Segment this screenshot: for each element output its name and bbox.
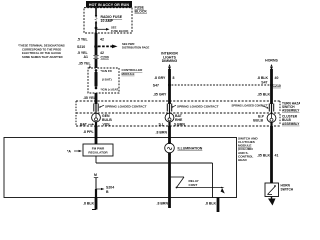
grounds stub M [94, 173, 98, 189]
svg-text:REGULATOR: REGULATOR [88, 150, 108, 154]
wire dimming to illumination lamp [168, 126, 171, 143]
svg-text:S47: S47 [261, 81, 267, 85]
svg-text:SOME NAMES THAT ADAPTED: SOME NAMES THAT ADAPTED [22, 55, 63, 59]
module top terminal [95, 69, 113, 73]
svg-text:8: 8 [173, 76, 175, 80]
wire below fuse block [95, 33, 98, 55]
svg-text:HORNS: HORNS [265, 59, 278, 63]
svg-text:CORRESPOND TO THE PROD: CORRESPOND TO THE PROD [22, 47, 61, 51]
svg-text:HEAD: HEAD [238, 158, 248, 162]
svg-text:.8 BLK: .8 BLK [257, 76, 269, 80]
svg-text:ASSEMBLY: ASSEMBLY [282, 122, 300, 126]
splice junction S47 mid [153, 84, 171, 88]
svg-text:.35 BLK: .35 BLK [257, 93, 271, 97]
spring contact right [269, 104, 273, 114]
svg-text:SWITCH: SWITCH [281, 187, 294, 191]
wire left column to box A [95, 126, 98, 144]
svg-text:ILLUMINATION: ILLUMINATION [178, 146, 203, 150]
svg-text:BLOCK: BLOCK [135, 9, 148, 13]
bulb left [92, 113, 113, 122]
svg-text:S210: S210 [77, 45, 85, 49]
svg-text:BAT: BAT [80, 123, 88, 127]
module label [122, 68, 144, 76]
svg-text:*A: *A [67, 149, 71, 153]
regulator input arrow [67, 149, 82, 153]
svg-text:42: 42 [100, 51, 104, 55]
relay branch from lamp wire [171, 177, 225, 194]
svg-text:.5 YEL: .5 YEL [77, 38, 88, 42]
ground wire right below bus [205, 198, 218, 213]
wire illumination lamp to bus [168, 153, 171, 197]
spring loaded contact label right [232, 103, 269, 108]
spring contact left [94, 104, 98, 114]
junction dot in fuse block [95, 27, 98, 30]
svg-text:.8 GRY: .8 GRY [154, 76, 166, 80]
svg-text:VIOL: VIOL [103, 123, 112, 127]
ground wire left below bus [83, 198, 96, 210]
svg-text:FUSE BLOCK: FUSE BLOCK [111, 29, 129, 33]
svg-text:CONT: CONT [189, 183, 198, 187]
svg-text:.35 BLK: .35 BLK [257, 154, 271, 158]
svg-text:41: 41 [275, 154, 279, 158]
svg-text:*IGN (+) BAT: *IGN (+) BAT [101, 88, 119, 92]
svg-text:MODULE: MODULE [122, 72, 135, 76]
cluster right labels group1 [282, 101, 306, 112]
svg-text:DISTRIBUTION PAGE: DISTRIBUTION PAGE [122, 45, 149, 49]
arrow see power distribution [98, 42, 149, 49]
svg-text:S.L: S.L [159, 123, 165, 127]
svg-text:(I BAT): (I BAT) [102, 77, 112, 81]
svg-text:S47: S47 [153, 84, 159, 88]
svg-text:.35 YEL: .35 YEL [83, 96, 96, 100]
spring loaded contact label mid [171, 104, 218, 108]
wire from header to fuse [95, 8, 97, 16]
ground under horn switch [268, 197, 276, 206]
connector C200 [84, 55, 109, 60]
splice S210 [77, 45, 98, 49]
bulb left lower contact [80, 122, 112, 128]
svg-text:SPRING LOADED CONTACT: SPRING LOADED CONTACT [105, 104, 147, 108]
note text block [18, 44, 65, 59]
illumination lamp [165, 141, 203, 155]
wire interior lights dimming [168, 69, 171, 104]
svg-text:.8 BRN: .8 BRN [157, 201, 169, 205]
svg-text:10 AMP: 10 AMP [101, 19, 114, 23]
svg-text:.8 PPL: .8 PPL [83, 130, 95, 134]
arrow see fuse block details [97, 26, 129, 33]
svg-text:*IGN FD: *IGN FD [101, 69, 113, 73]
svg-text:C210: C210 [273, 84, 281, 88]
svg-text:RHE: RHE [175, 118, 183, 122]
wire label .5 YEL 42 [77, 38, 104, 42]
wire label .8 GRY 8 [154, 76, 175, 80]
svg-text:M: M [94, 173, 97, 177]
svg-text:.8 BLK: .8 BLK [83, 201, 95, 205]
junction on horns wire [261, 81, 281, 88]
fuse value label [101, 15, 123, 23]
module bottom terminal [95, 87, 119, 92]
module internal element [96, 70, 112, 88]
regulator U1 [83, 144, 113, 156]
interior lights dimming source [161, 52, 178, 71]
horn switch S1 [265, 183, 294, 197]
svg-text:*THESE TERMINAL DESIGNATIONS: *THESE TERMINAL DESIGNATIONS [18, 44, 65, 48]
horns source [265, 59, 278, 71]
svg-text:S BRN: S BRN [174, 123, 185, 127]
svg-text:42: 42 [100, 38, 104, 42]
svg-text:.8 BLK: .8 BLK [205, 201, 217, 205]
wire module to cluster [95, 93, 98, 104]
wire stub to bus [95, 189, 97, 198]
svg-text:DIMMING: DIMMING [162, 59, 178, 63]
wire label .5 YEL 42 second [77, 51, 104, 55]
svg-text:40: 40 [275, 76, 279, 80]
wire label .8 BLK 40 [257, 76, 278, 80]
svg-text:SPRING LOADED CONTACT: SPRING LOADED CONTACT [232, 103, 268, 107]
fuse block dashed box [84, 8, 132, 33]
bulb mid lower contact [159, 122, 186, 128]
splice S204 with arrow [96, 185, 114, 193]
svg-text:A1: A1 [84, 55, 89, 59]
svg-text:C200: C200 [101, 56, 109, 60]
spring loaded contact label left [99, 104, 147, 108]
svg-text:.8 BRN: .8 BRN [156, 131, 168, 135]
bulb right lower contact [270, 122, 272, 127]
svg-text:.35 GRY: .35 GRY [153, 93, 167, 97]
spring contact mid [167, 104, 171, 114]
cluster strip dashed lines [76, 101, 281, 126]
svg-text:ASSEMBLY: ASSEMBLY [282, 109, 300, 113]
svg-text:SPRING LOADED CONTACT: SPRING LOADED CONTACT [177, 104, 219, 108]
svg-text:BULB: BULB [102, 118, 112, 122]
controller module dashed box [88, 68, 119, 93]
horns column lower wire [257, 126, 278, 183]
box A instrument panel assembly [4, 138, 237, 198]
svg-text:ELECTRICAL OF THE GAUGE: ELECTRICAL OF THE GAUGE [22, 51, 61, 55]
wire regulator to relay contact [96, 156, 213, 198]
wire horns column [270, 69, 273, 104]
bulb right [253, 113, 276, 122]
header hot feed box [86, 1, 132, 8]
dashed branch wire to right column [172, 84, 271, 86]
side label block switch and control head [238, 136, 258, 162]
ground wire mid below bus [157, 198, 170, 209]
cluster right labels group2 [282, 115, 300, 126]
svg-text:BULB: BULB [253, 118, 263, 122]
svg-text:S204: S204 [106, 185, 114, 189]
fuse F1 [95, 15, 98, 23]
wire fuse to splice [95, 22, 97, 33]
bulb mid [165, 113, 183, 122]
fuse block label [135, 6, 148, 14]
svg-text:HOT IN ACCY OR RUN: HOT IN ACCY OR RUN [89, 3, 129, 7]
